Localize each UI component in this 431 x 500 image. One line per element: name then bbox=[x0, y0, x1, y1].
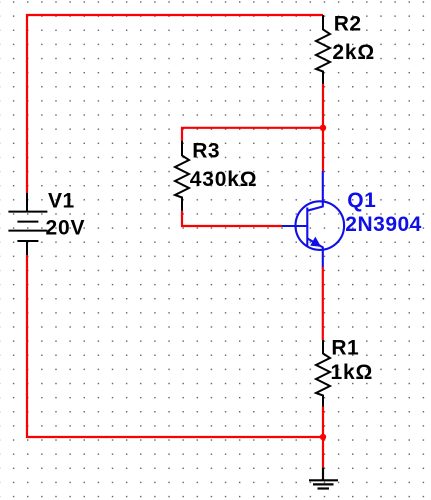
Q1 collector lead bbox=[307, 171, 323, 211]
V1 plate short 2 bbox=[17, 240, 38, 242]
wire: R2 bottom to collector (vertical through junction) bbox=[322, 84, 324, 171]
wire: junction to R3 top bbox=[182, 128, 323, 141]
wire: top net from V1+ to R2 top (horizontal) bbox=[27, 15, 323, 193]
V1 bottom pin bbox=[26, 241, 28, 255]
Q1 circle bbox=[296, 201, 345, 250]
svg-text:2N3904: 2N3904 bbox=[345, 213, 422, 236]
junction node (emitter/R1/ground) bbox=[320, 434, 326, 440]
ground bar 2 bbox=[313, 483, 334, 485]
svg-text:430kΩ: 430kΩ bbox=[190, 168, 258, 191]
ground bbox=[309, 467, 338, 488]
junction node (base divider top) bbox=[320, 125, 326, 131]
svg-text:R2: R2 bbox=[334, 12, 362, 35]
V1 plate short 1 bbox=[17, 221, 38, 223]
V1 plate long 1 bbox=[8, 211, 47, 213]
Q1 emitter lead bbox=[307, 238, 323, 267]
battery V1 bbox=[8, 193, 47, 255]
svg-text:V1: V1 bbox=[48, 190, 75, 213]
transistor Q1 (NPN 2N3904) bbox=[282, 171, 344, 267]
resistor R3 bbox=[175, 141, 189, 211]
Q1 base bar bbox=[306, 208, 308, 247]
wire: junction to ground bbox=[322, 437, 324, 467]
wire: emitter to R1 top bbox=[322, 267, 324, 340]
ground bar 3 bbox=[318, 487, 330, 489]
resistor R1 bbox=[316, 340, 330, 407]
svg-text:R1: R1 bbox=[331, 336, 359, 359]
ground lead bbox=[322, 467, 324, 480]
V1 top pin bbox=[26, 193, 28, 212]
svg-text:1kΩ: 1kΩ bbox=[331, 361, 374, 384]
Q1 emitter arrow bbox=[310, 237, 321, 247]
svg-text:2kΩ: 2kΩ bbox=[332, 41, 375, 64]
Q1 base lead bbox=[282, 225, 307, 227]
wire: R1 bottom to ground junction bbox=[322, 407, 324, 438]
ground bar 1 bbox=[309, 479, 338, 481]
V1 plate long 2 bbox=[8, 230, 47, 232]
svg-text:R3: R3 bbox=[192, 140, 220, 163]
resistor R2 bbox=[316, 15, 330, 84]
svg-text:Q1: Q1 bbox=[347, 189, 376, 212]
wire: R3 bottom to Q1 base bbox=[182, 211, 282, 227]
svg-text:20V: 20V bbox=[46, 217, 86, 240]
wire: V1- down and along bottom to junction bbox=[27, 255, 323, 437]
